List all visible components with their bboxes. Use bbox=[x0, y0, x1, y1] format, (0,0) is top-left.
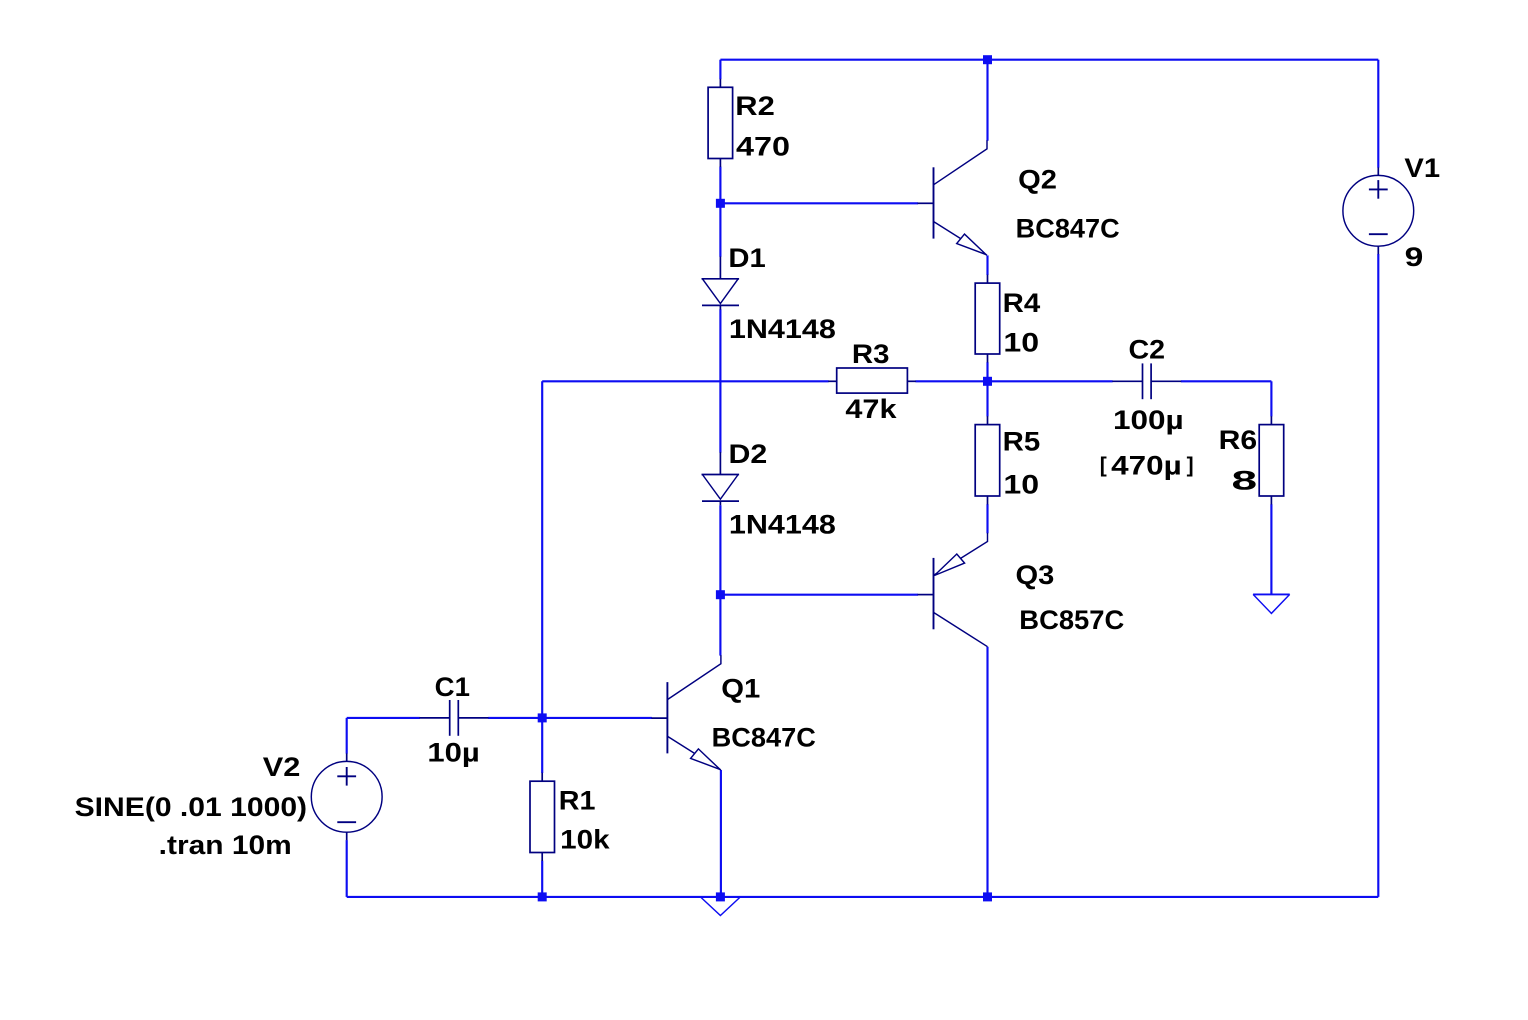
svg-text:.tran 10m: .tran 10m bbox=[159, 830, 292, 860]
svg-text:BC847C: BC847C bbox=[712, 723, 816, 753]
svg-text:SINE(0 .01 1000): SINE(0 .01 1000) bbox=[75, 792, 308, 822]
svg-text:[: [ bbox=[1100, 454, 1107, 477]
svg-text:BC847C: BC847C bbox=[1016, 214, 1120, 244]
svg-text:10µ: 10µ bbox=[427, 737, 479, 767]
svg-text:1N4148: 1N4148 bbox=[729, 314, 836, 344]
svg-text:R1: R1 bbox=[559, 786, 596, 816]
svg-text:9: 9 bbox=[1405, 242, 1424, 272]
svg-text:10k: 10k bbox=[560, 824, 610, 854]
svg-text:]: ] bbox=[1187, 454, 1194, 477]
svg-text:D2: D2 bbox=[729, 439, 768, 469]
svg-text:8: 8 bbox=[1232, 465, 1258, 495]
svg-text:10: 10 bbox=[1003, 328, 1039, 358]
svg-text:R3: R3 bbox=[852, 339, 890, 369]
svg-text:R5: R5 bbox=[1003, 427, 1041, 457]
svg-text:R2: R2 bbox=[735, 91, 775, 121]
svg-text:BC857C: BC857C bbox=[1019, 605, 1124, 635]
svg-text:V1: V1 bbox=[1404, 153, 1440, 183]
svg-text:470µ: 470µ bbox=[1111, 451, 1182, 481]
svg-text:47k: 47k bbox=[845, 394, 896, 424]
svg-text:D1: D1 bbox=[728, 243, 765, 273]
svg-text:1N4148: 1N4148 bbox=[729, 510, 836, 540]
svg-text:C1: C1 bbox=[435, 672, 470, 702]
svg-text:V2: V2 bbox=[263, 752, 301, 782]
svg-text:10: 10 bbox=[1003, 469, 1039, 499]
svg-text:R4: R4 bbox=[1003, 288, 1041, 318]
svg-text:Q3: Q3 bbox=[1016, 560, 1055, 590]
svg-text:100µ: 100µ bbox=[1113, 405, 1184, 435]
svg-text:470: 470 bbox=[736, 131, 790, 161]
svg-text:R6: R6 bbox=[1219, 425, 1258, 455]
svg-text:C2: C2 bbox=[1129, 334, 1166, 364]
svg-text:Q2: Q2 bbox=[1018, 165, 1057, 195]
svg-text:Q1: Q1 bbox=[721, 674, 760, 704]
